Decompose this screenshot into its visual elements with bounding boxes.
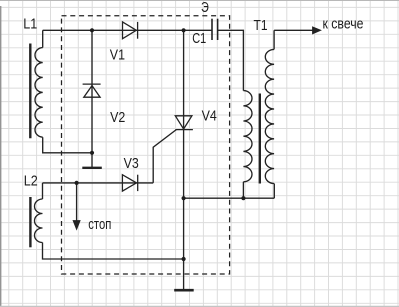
svg-text:V4: V4 [202, 107, 217, 124]
svg-text:T1: T1 [254, 17, 268, 34]
svg-text:к свече: к свече [323, 16, 364, 33]
svg-text:V2: V2 [110, 109, 125, 126]
svg-text:V3: V3 [124, 155, 139, 172]
svg-text:L1: L1 [23, 15, 37, 32]
svg-text:Э: Э [201, 0, 209, 16]
svg-text:C1: C1 [192, 30, 206, 47]
svg-text:стоп: стоп [88, 216, 111, 233]
svg-text:L2: L2 [24, 172, 38, 189]
svg-text:V1: V1 [110, 46, 125, 63]
